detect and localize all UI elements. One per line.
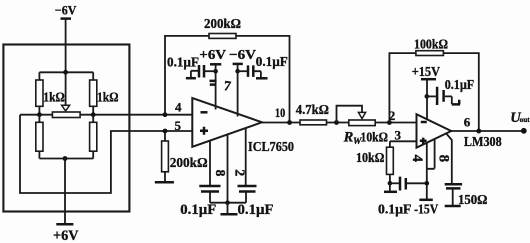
svg-text:+6V: +6V [53, 228, 79, 243]
svg-text:R: R [343, 129, 354, 145]
mystery double bars under +6V node [210, 81, 217, 85]
wire feedback left riser [165, 36, 209, 115]
svg-text:0.1µF: 0.1µF [378, 203, 411, 218]
op-amp U2 LM308 triangle [417, 114, 452, 148]
svg-text:4: 4 [175, 100, 182, 115]
wire feedback right riser to output [443, 53, 478, 131]
supply +6V terminal tick [56, 223, 73, 226]
ground below 200kΩ [155, 181, 174, 184]
ground ICL caps [227, 203, 229, 214]
svg-text:-15V: -15V [414, 202, 438, 217]
resistor 200kΩ to ground from pin5 [164, 131, 166, 141]
node feedback/output junction [287, 120, 292, 125]
svg-text:200kΩ: 200kΩ [170, 156, 208, 171]
resistor lower-left [38, 115, 40, 123]
svg-text:0.1µF: 0.1µF [167, 55, 199, 70]
capacitor 0.1µF right decoupling [238, 70, 247, 72]
svg-text:200kΩ: 200kΩ [204, 17, 241, 32]
wire routing left node to pin 5 (down and around) [20, 115, 193, 193]
svg-text:100kΩ: 100kΩ [414, 36, 448, 51]
wire pin3 [390, 140, 417, 142]
ground left cap [186, 77, 196, 80]
node pin2 junction [387, 120, 392, 125]
wiper arrowhead [358, 112, 365, 118]
ground 150 [445, 205, 461, 208]
svg-text:10: 10 [275, 105, 285, 120]
plus input sign [420, 138, 427, 145]
resistor 100kΩ feedback [416, 51, 444, 56]
svg-text:out: out [520, 115, 530, 124]
minus input sign [421, 121, 427, 124]
svg-text:1kΩ: 1kΩ [97, 90, 119, 105]
wire bridge mid rail to pin 4 [20, 114, 193, 116]
pin 4 lead and second pin joined [427, 139, 435, 199]
pin lead to Cext A [209, 141, 211, 186]
resistor 4.7kΩ [300, 120, 327, 125]
svg-text:0.1µF: 0.1µF [180, 202, 216, 218]
svg-text:2: 2 [232, 169, 247, 176]
node pin5 junction [163, 129, 168, 134]
capacitor 0.1µF Cext A [199, 186, 220, 192]
svg-text:150Ω: 150Ω [458, 193, 487, 208]
capacitor 0.1µF +15V decoupling [427, 95, 436, 97]
capacitor 0.1µF -15V decoupling [390, 182, 400, 184]
output terminal dot [521, 128, 527, 134]
pin lead middle ground [227, 135, 229, 203]
potentiometer RW body [349, 120, 375, 126]
svg-text:1kΩ: 1kΩ [43, 90, 65, 105]
pin lead to Cext B [245, 129, 247, 186]
wire bridge top rail [39, 71, 93, 73]
wire bridge bottom rail [39, 158, 93, 160]
pin 8 lead down [447, 134, 452, 184]
node left bridge [37, 112, 42, 117]
ground +15V cap [452, 100, 460, 105]
node 10k bottom [388, 181, 393, 186]
wire +6V into ICL [215, 64, 217, 109]
wire feedback right riser [236, 36, 290, 123]
svg-text:8: 8 [213, 170, 228, 177]
wire output rail ICL to LM308 [262, 122, 417, 124]
node right bridge [91, 112, 96, 117]
svg-text:10kΩ: 10kΩ [361, 130, 389, 145]
svg-text:−6V: −6V [55, 2, 77, 17]
node output feedback junction [476, 129, 481, 134]
svg-text:0.1µF: 0.1µF [238, 202, 274, 218]
svg-text:3: 3 [395, 128, 402, 143]
supply -15V tick [419, 199, 432, 202]
capacitor/150Ω network [445, 184, 462, 188]
capacitor 0.1µF Cext B [238, 186, 257, 192]
svg-text:+6V: +6V [199, 48, 226, 63]
wire cap bottoms rail [210, 202, 246, 204]
svg-text:LM308: LM308 [464, 135, 502, 150]
svg-text:5: 5 [175, 118, 182, 133]
node top (junction dot) [63, 70, 68, 75]
resistor 10kΩ pin3 to ground [389, 141, 391, 147]
ground 10k [389, 183, 391, 190]
svg-text:−6V: −6V [229, 48, 256, 63]
resistor 200kΩ feedback [209, 34, 236, 39]
svg-text:4.7kΩ: 4.7kΩ [296, 103, 329, 118]
wire -6V drop to bridge top [65, 19, 67, 73]
svg-text:0.1µF: 0.1µF [445, 77, 475, 92]
resistor lower-right [92, 115, 94, 123]
wire +6V drop [64, 159, 66, 225]
resistor R-upper-left 1kΩ [38, 72, 40, 80]
ground right cap [256, 77, 268, 80]
node after 4.7k [334, 120, 339, 125]
svg-text:2: 2 [389, 108, 396, 123]
potentiometer body (bridge balance pot) [52, 112, 80, 118]
node bottom (junction dot) [63, 156, 68, 161]
svg-text:4: 4 [409, 154, 425, 162]
svg-text:8: 8 [436, 155, 452, 163]
svg-text:10kΩ: 10kΩ [356, 151, 384, 166]
node pin4 junction [163, 112, 168, 117]
op-amp U1 ICL7650 triangle [192, 98, 262, 147]
wire -6V into ICL [237, 64, 239, 117]
plus input sign [200, 127, 208, 135]
wire 100k feedback left riser [389, 53, 416, 122]
svg-text:6: 6 [464, 114, 471, 129]
resistor R-upper-right 1kΩ [92, 72, 94, 80]
supply -6V terminal tick [61, 17, 72, 20]
potentiometer wiper arm from top node [65, 72, 67, 106]
svg-text:0.1µF: 0.1µF [256, 55, 288, 70]
minus input sign [201, 111, 208, 114]
wire rheostat loop [337, 106, 363, 123]
svg-text:ICL7650: ICL7650 [248, 140, 294, 155]
wire output [451, 130, 524, 132]
shield box around bridge [3, 45, 129, 212]
